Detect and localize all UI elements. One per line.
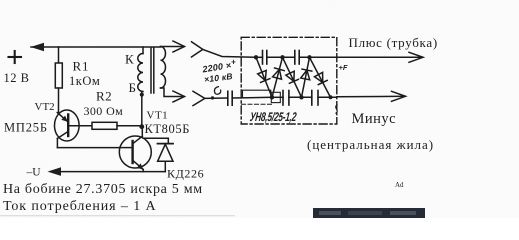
transistor Q2 VT1 [119,127,151,172]
connector plug arrow top [173,41,185,52]
capacitor C3 [295,51,299,65]
node winding phase dot [140,93,144,97]
wire VT2 collector to VT1 base [57,147,119,149]
diode D6 KD226 [144,138,174,171]
svg-text:+F: +F [339,63,348,72]
transformer T1 secondary winding [161,47,166,89]
diode D5 [310,57,331,97]
connector socket bottom [193,91,205,105]
capacitor C4 [283,91,289,106]
connector plug arrow bottom [173,91,185,102]
wire -U bottom rail [61,171,165,173]
node plus symbol [9,51,22,63]
capacitor C2 [263,51,267,65]
decorative scan edge [0,215,235,217]
wire output plus arrow [337,56,423,58]
node blob [211,96,214,99]
wire top rail of multiplier [256,56,263,58]
svg-text:VT2: VT2 [35,101,55,113]
svg-text:1кОм: 1кОм [69,74,100,88]
transformer T1 primary winding [142,47,144,54]
svg-text:КТ805Б: КТ805Б [145,122,191,136]
wire socket to multiplier top [203,49,256,57]
svg-text:На бобине 27.3705 искра 5 мм: На бобине 27.3705 искра 5 мм [3,182,203,197]
node bottom rail 3 [329,95,333,99]
node bottom rail 1 [270,95,274,99]
svg-text:R1: R1 [73,59,90,74]
node top rail 2 [280,55,284,59]
svg-text:КД226: КД226 [167,166,204,180]
connector socket top [192,42,203,57]
wire socket to capacitor [205,97,228,99]
svg-text:Ad: Ad [395,181,404,189]
wire output minus arrow [337,95,405,98]
capacitor C1 2200pF 10kV [228,91,232,105]
diode D4 [301,57,312,97]
svg-text:VT1: VT1 [147,110,169,122]
diode D2 [272,57,284,97]
resistor R2 [92,122,117,129]
resistor R1 [58,47,60,63]
node top rail 1 [254,55,258,59]
svg-text:Плюс (трубка): Плюс (трубка) [349,35,438,50]
node bottom rail 2 [299,95,303,99]
wire dashed stub [242,103,275,105]
node top rail 3 [307,55,311,59]
multiplier box U1 dash-dot border [241,37,337,124]
svg-text:К: К [125,52,134,67]
diode D1 [256,57,272,97]
decorative watermark bar [313,208,425,218]
svg-text:–U: –U [26,167,42,179]
svg-text:Минус: Минус [352,111,397,127]
svg-text:+: + [231,58,236,67]
svg-text:(центральная жила): (центральная жила) [307,137,434,152]
svg-text:МП25Б: МП25Б [4,120,48,134]
diode D3 [283,57,302,97]
svg-text:УН8,5/25-1,2: УН8,5/25-1,2 [249,110,297,124]
wire top rail +12V [31,46,161,48]
svg-text:12 В: 12 В [4,71,30,85]
svg-text:Б: Б [129,80,136,95]
node label tilde [336,104,338,114]
node +12V arrow [31,43,45,52]
node jog rectangle [271,92,280,102]
wire scan double line [243,90,271,98]
svg-text:R2: R2 [96,89,112,104]
wire bottom rail of multiplier [272,96,283,98]
node collector junction [139,124,144,129]
value label squiggle pointer [214,87,220,95]
wire junction to winding Б [141,92,143,125]
transistor Q1 VT2 [55,110,92,148]
capacitor C5 [312,91,318,106]
transformer core [150,48,152,94]
svg-text:Ток потребления – 1 А: Ток потребления – 1 А [3,199,157,214]
svg-text:300 Ом: 300 Ом [84,104,124,118]
